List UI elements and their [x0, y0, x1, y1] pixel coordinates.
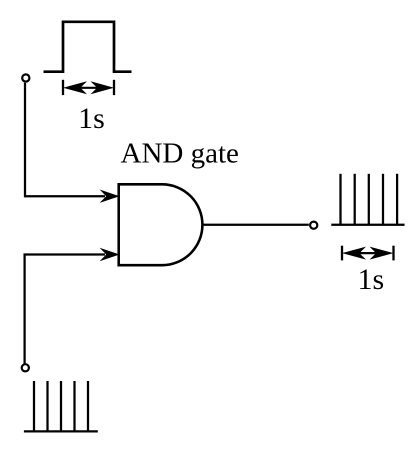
- AND gate U1 body: [119, 184, 203, 265]
- right measure tick of output 1s interval: [392, 246, 394, 261]
- node: output terminal (open circle): [310, 222, 317, 229]
- svg-text:1s: 1s: [78, 102, 105, 135]
- output spike train waveform: [331, 174, 404, 225]
- double-headed arrow for output 1s interval: [342, 247, 394, 260]
- right measure tick of top 1s interval: [113, 80, 115, 95]
- left measure tick of top 1s interval: [62, 80, 64, 95]
- arrowhead into gate top input: [100, 190, 120, 203]
- left measure tick of output 1s interval: [341, 246, 343, 261]
- node: bottom input terminal (open circle): [22, 364, 29, 371]
- double-headed arrow for top 1s interval: [63, 81, 114, 94]
- wire: bottom input horizontal: [25, 255, 105, 364]
- svg-text:1s: 1s: [357, 263, 384, 296]
- arrowhead into gate bottom input: [100, 248, 120, 261]
- node: top input terminal (open circle): [22, 74, 29, 81]
- bottom input spike train waveform: [24, 381, 98, 431]
- wire: top input vertical then horizontal into gate: [25, 83, 105, 197]
- top input pulse waveform: [44, 22, 132, 72]
- svg-text:AND gate: AND gate: [121, 138, 239, 170]
- wire: gate output: [203, 224, 309, 226]
